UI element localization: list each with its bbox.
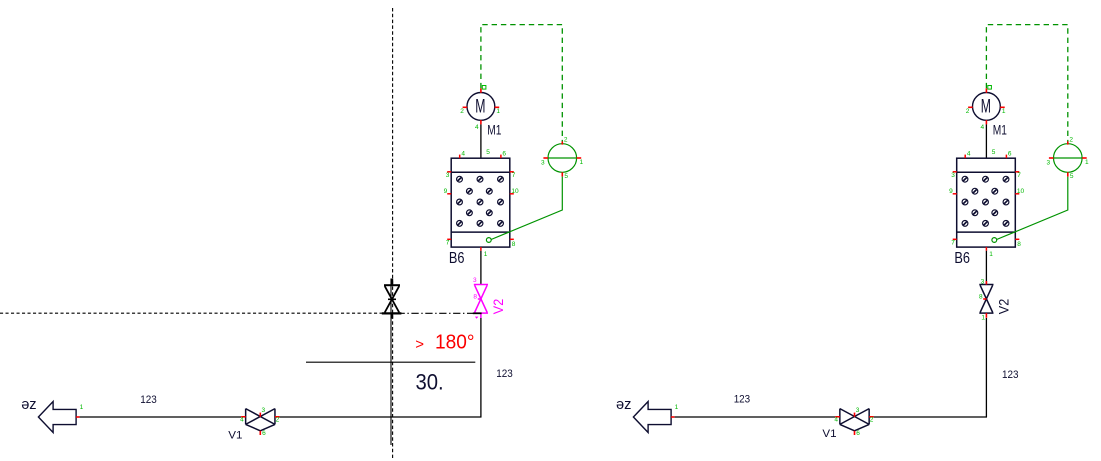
left assembly: motor M1, vessel B6, level sensor — [444, 25, 584, 417]
valve V1 (3-way) — [240, 407, 279, 437]
svg-text:əz: əz — [21, 396, 36, 413]
dimension line 30 box — [306, 361, 475, 363]
svg-text:123: 123 — [734, 393, 751, 405]
wire dash-dot termination over valve — [473, 312, 482, 314]
wire arrow to valve V1 — [80, 416, 242, 418]
svg-text:180°: 180° — [435, 332, 475, 354]
valve V1 (right, 3-way) — [834, 407, 874, 437]
svg-text:8: 8 — [979, 293, 983, 300]
cursor horizontal dotted line — [0, 312, 390, 314]
valve V2 (selected, magenta) — [474, 285, 488, 314]
dash-dot centerline to valve V2 — [398, 312, 474, 314]
svg-text:V1: V1 — [228, 429, 242, 441]
svg-text:3: 3 — [981, 279, 985, 286]
svg-text:V2: V2 — [490, 299, 506, 315]
wire valve V1 to riser corner — [279, 416, 481, 418]
cursor crosshair vertical dashed line — [392, 8, 394, 458]
svg-text:V2: V2 — [995, 299, 1011, 315]
outgoing flow arrow — [38, 402, 83, 433]
svg-text:1: 1 — [981, 315, 985, 322]
outgoing flow arrow (right) — [633, 402, 678, 433]
solid vertical line through preview valve — [390, 279, 392, 446]
valve preview at cursor — [382, 279, 402, 319]
svg-text:123: 123 — [496, 368, 513, 380]
svg-text:123: 123 — [1002, 369, 1019, 381]
svg-text:30.: 30. — [416, 369, 444, 394]
right assembly: motor M1, vessel B6, level sensor — [949, 25, 1089, 417]
svg-text:123: 123 — [140, 394, 157, 406]
svg-text:>: > — [415, 336, 424, 353]
wire arrow to valve V1 (right) — [675, 416, 836, 418]
valve V2 (right copy) — [979, 285, 993, 314]
svg-text:V1: V1 — [822, 428, 836, 440]
svg-text:3: 3 — [473, 277, 477, 284]
svg-text:əz: əz — [616, 396, 631, 413]
wire valve V1 to riser corner (right) — [874, 416, 987, 418]
svg-text:8: 8 — [473, 293, 477, 300]
